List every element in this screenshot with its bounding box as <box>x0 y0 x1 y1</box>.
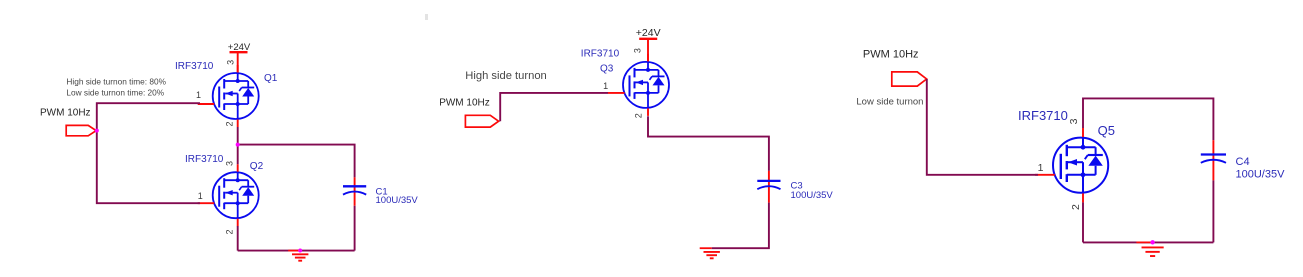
svg-text:High side turnon time: 80%: High side turnon time: 80% <box>66 77 166 87</box>
wire: Q5 source down <box>1082 202 1084 242</box>
transistor Q5 (IRF3710 N-MOSFET symbol) <box>1053 137 1108 193</box>
svg-text:PWM 10Hz: PWM 10Hz <box>439 98 490 109</box>
port PWM 10Hz symbol (middle) <box>465 115 498 127</box>
svg-text:3: 3 <box>1068 118 1080 124</box>
svg-text:2: 2 <box>225 121 235 126</box>
svg-text:3: 3 <box>226 60 236 65</box>
C1 pin leads <box>354 177 356 205</box>
port PWM 10Hz symbol (right) <box>892 72 927 86</box>
Q2 pin 1 (gate) lead <box>198 202 215 204</box>
svg-text:2: 2 <box>225 229 235 234</box>
transistor Q3 (IRF3710 N-MOSFET symbol) <box>623 61 669 108</box>
svg-text:100U/35V: 100U/35V <box>791 190 834 201</box>
svg-text:High side turnon: High side turnon <box>465 70 546 82</box>
svg-text:1: 1 <box>196 90 201 100</box>
Q2 pin 2 (source) lead <box>237 219 239 227</box>
svg-text:100U/35V: 100U/35V <box>1236 168 1286 180</box>
svg-text:Low side turnon time: 20%: Low side turnon time: 20% <box>66 87 164 97</box>
junction at ground tap (right) <box>1150 240 1154 244</box>
wire: C3 down and left to ground (middle) <box>712 203 769 249</box>
svg-text:3: 3 <box>633 48 643 53</box>
Q3 pin 1 (gate) lead <box>608 92 625 94</box>
capacitor C3 (polarized) <box>757 180 780 182</box>
svg-text:C4: C4 <box>1236 156 1250 168</box>
ground symbol (left circuit) <box>288 250 300 252</box>
svg-text:Q5: Q5 <box>1098 123 1115 138</box>
C4 pin leads <box>1212 140 1214 180</box>
svg-text:IRF3710: IRF3710 <box>175 61 214 72</box>
svg-text:Low side turnon: Low side turnon <box>856 97 923 108</box>
Q1 pin 1 (gate) lead <box>198 103 215 105</box>
wire: Q2 source down <box>237 226 239 251</box>
svg-text:Q1: Q1 <box>264 73 278 84</box>
svg-text:IRF3710: IRF3710 <box>581 48 620 59</box>
svg-text:1: 1 <box>1038 162 1044 174</box>
wire: port up to Q1 gate level <box>97 103 200 130</box>
wire: mid node branch to C1 <box>238 145 355 178</box>
wire: Q3 source down right to C3 <box>648 116 769 171</box>
wire: right port down and right to Q5 gate <box>927 79 1038 175</box>
svg-text:PWM 10Hz: PWM 10Hz <box>863 48 919 60</box>
wire: C1 to bottom rail <box>354 206 356 251</box>
svg-text:3: 3 <box>225 161 235 166</box>
svg-text:+24V: +24V <box>636 27 661 39</box>
wire: bottom rail (left circuit) <box>238 250 355 252</box>
Q5 pin 1 (gate) lead <box>1035 174 1055 176</box>
power +24V bar symbol (left) <box>230 51 248 53</box>
Q1 pin 2 (source) lead <box>237 120 239 128</box>
junction at ground tap (left) <box>298 249 302 253</box>
svg-text:2: 2 <box>634 113 644 118</box>
svg-text:IRF3710: IRF3710 <box>1018 108 1068 123</box>
wire: Q5 drain up and right to C4 <box>1083 98 1213 140</box>
Q5 pin 2 (source) lead <box>1082 193 1084 202</box>
C3 pin leads <box>768 171 770 203</box>
svg-text:1: 1 <box>198 191 203 201</box>
port PWM 10Hz symbol (left) <box>66 125 96 135</box>
transistor Q2 (IRF3710 N-MOSFET symbol) <box>213 172 259 219</box>
capacitor C4 (polarized) <box>1201 153 1226 155</box>
ground symbol (right circuit) <box>1136 241 1152 243</box>
junction at PWM port tip <box>95 129 99 133</box>
wire: C4 down to bottom rail (right) <box>1212 180 1214 242</box>
svg-text:PWM 10Hz: PWM 10Hz <box>40 107 91 118</box>
svg-text:IRF3710: IRF3710 <box>185 154 224 165</box>
svg-text:2: 2 <box>1070 204 1082 210</box>
stray speck artifact <box>425 14 428 20</box>
capacitor C1 (polarized) <box>343 185 366 187</box>
wire: port down to Q2 gate level <box>97 131 200 204</box>
Q1 pin 3 (drain) lead <box>237 65 239 73</box>
transistor Q1 (IRF3710 N-MOSFET symbol) <box>213 73 259 120</box>
junction at Q1/Q2 midpoint node <box>236 143 240 147</box>
wire: bottom rail (right circuit) <box>1083 241 1213 243</box>
ground symbol (middle circuit) <box>700 247 712 249</box>
svg-text:Q3: Q3 <box>600 64 614 75</box>
svg-text:Q2: Q2 <box>250 161 264 172</box>
wire: Q1 source to Q2 drain <box>237 127 239 164</box>
power +24V bar symbol (middle) <box>639 38 657 40</box>
svg-text:1: 1 <box>603 81 608 91</box>
Q5 pin 3 (drain) lead <box>1082 128 1084 137</box>
Q2 pin 3 (drain) lead <box>237 164 239 172</box>
svg-text:100U/35V: 100U/35V <box>376 195 419 206</box>
wire: middle port up and right to Q3 gate <box>500 93 608 121</box>
Q3 pin 3 (drain) lead <box>647 54 649 62</box>
Q3 pin 2 (source) lead <box>647 108 649 116</box>
